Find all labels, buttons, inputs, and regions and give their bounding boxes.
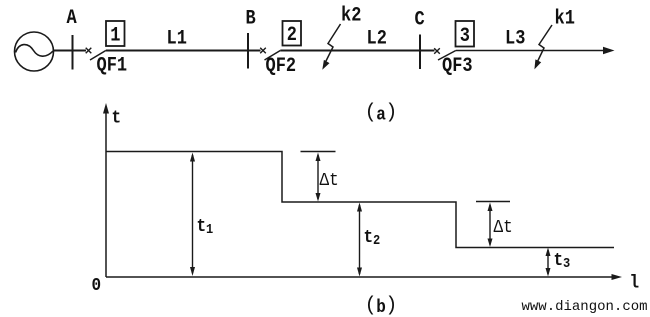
svg-text:L2: L2	[367, 27, 387, 50]
svg-text:L1: L1	[167, 27, 187, 50]
svg-text:t: t	[112, 107, 122, 129]
t3 arrow	[546, 248, 551, 277]
svg-text:(: (	[365, 102, 377, 125]
t1 arrow	[190, 153, 195, 277]
breaker QF1 contact cross	[86, 48, 92, 54]
delta t arrow 2	[488, 203, 493, 248]
bus C	[419, 35, 421, 70]
svg-text:t: t	[197, 216, 207, 238]
bus B	[247, 33, 249, 69]
svg-text:(: (	[365, 295, 377, 317]
breaker QF2 blade	[265, 51, 281, 61]
time grading staircase	[106, 152, 614, 248]
breaker QF2 contact cross	[260, 48, 266, 54]
svg-text:b: b	[376, 297, 386, 317]
svg-text:www.diangon.com: www.diangon.com	[522, 299, 648, 315]
svg-text:Δt: Δt	[320, 170, 339, 192]
label (a)	[365, 102, 398, 126]
wire L2	[280, 50, 434, 52]
svg-text:3: 3	[460, 25, 470, 48]
breaker QF1 blade	[90, 51, 106, 61]
delta t bar 2	[476, 201, 510, 203]
svg-text:QF2: QF2	[266, 55, 297, 78]
relay box 1	[106, 21, 125, 47]
svg-text:k1: k1	[555, 7, 575, 30]
svg-text:1: 1	[206, 221, 213, 237]
svg-text:A: A	[67, 7, 78, 30]
breaker QF3 blade	[438, 51, 456, 61]
t2 arrow	[357, 203, 362, 277]
wire L1	[106, 50, 261, 52]
breaker QF3 contact cross	[434, 48, 440, 54]
svg-text:): )	[385, 102, 397, 125]
axis t (vertical)	[103, 103, 109, 277]
svg-text:Δt: Δt	[494, 217, 513, 239]
bus A	[72, 35, 74, 70]
svg-text:t: t	[364, 227, 374, 249]
delta t bar 1	[301, 151, 336, 153]
wire L3 with load arrow	[456, 47, 615, 54]
label (b)	[365, 295, 398, 317]
svg-text:2: 2	[287, 24, 297, 47]
relay box 2	[283, 21, 302, 46]
svg-text:l: l	[630, 272, 640, 294]
svg-text:QF3: QF3	[442, 55, 473, 78]
svg-text:C: C	[415, 8, 425, 31]
wire G to bus A	[54, 50, 87, 52]
svg-text:t: t	[554, 250, 564, 272]
svg-text:QF1: QF1	[97, 54, 128, 77]
svg-text:L3: L3	[505, 27, 525, 50]
delta t arrow 1	[316, 153, 321, 202]
svg-text:0: 0	[92, 275, 102, 297]
fault arrow k1	[534, 25, 552, 69]
fault arrow k2	[322, 24, 340, 70]
svg-text:B: B	[246, 7, 256, 30]
svg-text:): )	[385, 295, 397, 317]
svg-text:2: 2	[373, 232, 380, 248]
relay box 3	[456, 21, 475, 47]
axis l (horizontal)	[106, 274, 622, 280]
generator G	[15, 32, 54, 71]
svg-text:3: 3	[563, 255, 570, 271]
svg-text:k2: k2	[341, 4, 361, 27]
svg-text:1: 1	[110, 24, 120, 47]
